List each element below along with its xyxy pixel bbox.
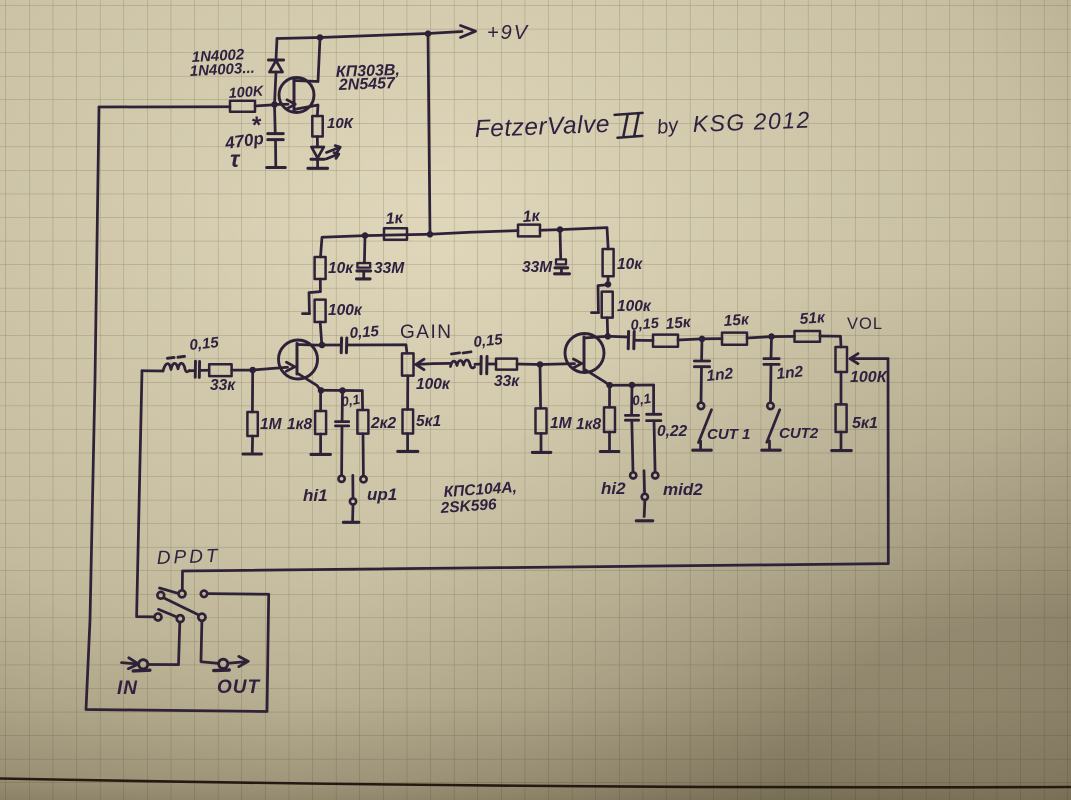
ground (CUT1) (693, 449, 711, 452)
node Q2 drain (319, 342, 326, 349)
svg-text:1N4003...: 1N4003... (189, 60, 255, 80)
svg-text:0,15: 0,15 (189, 334, 220, 354)
wire 1K right to corner, down to 10K2 (540, 228, 608, 249)
wire 33K to gate node (232, 369, 253, 372)
svg-text:10К: 10К (327, 115, 355, 132)
DPDT terminal C (201, 591, 207, 597)
DPDT terminal E (177, 615, 184, 622)
svg-text:+9V: +9V (487, 22, 529, 44)
switch hi1 terminal (339, 476, 345, 482)
wire gate lead with arrow into Q1 (275, 103, 289, 106)
arrow +9V (461, 26, 476, 38)
potentiometer GAIN 100K body (402, 353, 414, 375)
resistor 5K1 (stage1) (403, 410, 414, 434)
svg-text:1к: 1к (385, 210, 404, 228)
switch up1 terminal (360, 476, 366, 482)
ground (LED) (308, 167, 328, 170)
wire center rail drop (428, 34, 430, 235)
wire Q2 source link (297, 373, 321, 390)
capacitor 0,1 (stage1) (341, 391, 344, 421)
potentiometer VOL 100K body (836, 347, 848, 372)
wire diode to gate node (275, 72, 277, 105)
wire stage rail left (321, 234, 431, 257)
wire rail left drop to diode (276, 39, 277, 60)
capacitor 0,1 (stage2) (630, 385, 633, 414)
svg-text:FetzerValve: FetzerValve (474, 111, 610, 143)
transistor Q2 channel bar (296, 344, 299, 375)
svg-text:by: by (656, 114, 681, 139)
node gate junction Q1 (271, 101, 278, 108)
svg-text:2к2: 2к2 (370, 415, 396, 432)
capacitor 0,15 (stage2 out) (628, 332, 634, 349)
resistor 1K8 (stage2) (608, 385, 611, 407)
resistor 33K (interstage) (496, 359, 517, 370)
wire source rail stage2 (609, 384, 653, 387)
svg-text:51к: 51к (799, 309, 826, 328)
node stage rail center (427, 231, 434, 238)
wire input corner to shield squiggle (142, 369, 163, 372)
ground (CUT2) (762, 449, 780, 452)
DPDT terminal B (179, 590, 186, 597)
ground (33M#2) (555, 272, 570, 275)
ground (hi1/up1) (343, 521, 358, 524)
ground (5K1 output) (832, 449, 851, 452)
DPDT blade 1 (160, 588, 179, 593)
svg-text:0,22: 0,22 (657, 423, 688, 440)
wire left bus down and bottom box (86, 107, 269, 712)
node 1k8-2 top (606, 382, 613, 389)
svg-text:CUT2: CUT2 (779, 425, 819, 442)
svg-text:OUT: OUT (217, 677, 261, 698)
wire source rail stage1 (321, 389, 363, 392)
svg-text:33М: 33М (522, 259, 553, 276)
resistor 51K (772, 335, 795, 338)
trimmer 100K (stage2) lever (592, 285, 608, 313)
svg-text:VOL: VOL (847, 315, 883, 333)
svg-text:2N5457: 2N5457 (338, 75, 397, 94)
wire Q2 gate with arrow (253, 367, 288, 370)
capacitor 33M#1 electrolytic (363, 236, 366, 263)
switch hi2/mid2 common (643, 471, 646, 494)
DPDT terminal D (155, 614, 162, 621)
wire to node cut1 (678, 339, 702, 340)
wire Q2 drain link (297, 343, 322, 346)
wire vertical input bus to DPDT (137, 371, 155, 617)
switch CUT1 (698, 403, 704, 409)
node Q3 drain (605, 333, 612, 340)
trimmer 100K (stage2) body (602, 292, 613, 318)
node rail-drain junction (317, 34, 324, 41)
capacitor 33M#2 electrolytic (559, 230, 562, 259)
svg-text:1М: 1М (550, 415, 573, 432)
node 33M#2 tap (557, 226, 564, 233)
svg-text:100к: 100к (617, 298, 652, 315)
wire 10K to LED (316, 137, 319, 147)
IN jack tip (139, 660, 148, 669)
wire Q3 drain link (584, 336, 608, 338)
svg-text:5к1: 5к1 (852, 415, 878, 432)
DPDT terminal F (198, 614, 205, 621)
capacitor 1n2 (cut2) (770, 337, 773, 358)
ground (1M stage2) (532, 451, 550, 454)
switch hi1/up1 common (351, 475, 354, 498)
svg-text:33к: 33к (210, 377, 236, 394)
wire drain2 to output cap (608, 335, 627, 338)
node 0,1 top (339, 387, 346, 394)
OUT jack tip (219, 659, 228, 668)
transistor Q3 (stage2 JFET) circle (565, 334, 604, 373)
resistor 1K (right) (518, 225, 540, 237)
wire Q1 source down (294, 105, 318, 116)
wire 33K2 to gate2 (517, 363, 540, 366)
resistor 100K (gate bleed) (230, 101, 255, 112)
DPDT blade 3 (159, 609, 177, 617)
wire 100K left to long left bus (99, 105, 230, 108)
svg-text:15к: 15к (665, 314, 693, 333)
LED D2 (312, 147, 324, 158)
svg-text:0,1: 0,1 (340, 392, 361, 410)
svg-text:1к8: 1к8 (576, 416, 601, 433)
wire VOL bottom to 5K1 (840, 372, 843, 404)
svg-text:DPDT: DPDT (156, 546, 220, 569)
ground (5K1 stage1) (398, 450, 418, 453)
node rail-center junction (425, 30, 432, 37)
wire trimmer2 to drain node (606, 318, 609, 336)
svg-text:mid2: mid2 (663, 480, 703, 499)
svg-text:0,1: 0,1 (631, 391, 652, 409)
resistor 1M (stage2) (539, 365, 542, 409)
svg-text:IN: IN (117, 678, 138, 699)
diode D1 1N4002 (269, 59, 284, 62)
svg-text:10к: 10к (617, 256, 643, 273)
svg-text:1к: 1к (522, 208, 541, 226)
trimmer 100K (stage1) lever (303, 292, 321, 314)
wire terminal F down to OUT jack (201, 621, 217, 663)
capacitor 1n2 (cut1) (700, 339, 703, 360)
svg-text:100K: 100K (228, 84, 265, 102)
svg-text:hi2: hi2 (601, 479, 626, 498)
ground (1K8 stage1) (311, 453, 330, 456)
node below 10K2 (605, 281, 612, 288)
wire GAIN pot bottom to 5K1 (406, 376, 409, 410)
switch hi2 terminal (630, 472, 636, 478)
switch CUT2 (767, 403, 773, 409)
wire to node cut2 (747, 337, 772, 338)
wire stage rail right (430, 231, 518, 235)
node gate1 junction (249, 367, 256, 374)
resistor 10K (stage2) (603, 249, 614, 276)
ground (33M#1) (357, 277, 371, 280)
ground (1M stage1) (243, 452, 261, 455)
svg-text:1М: 1М (260, 416, 283, 433)
svg-text:KSG 2012: KSG 2012 (692, 106, 811, 137)
DPDT blade 2 (long) (164, 598, 199, 615)
svg-text:0,15: 0,15 (630, 316, 660, 334)
node cut1 tap (699, 336, 706, 343)
node 1k8 top (318, 387, 325, 394)
resistor 15K (first) (653, 335, 678, 347)
LED emission arrows (327, 146, 341, 153)
trimmer 100K (stage1) body (315, 300, 326, 322)
wire trimmer1 to drain node (320, 322, 322, 345)
svg-text:33к: 33к (494, 373, 520, 390)
capacitor 470p (273, 105, 276, 133)
wire 51K to VOL pot (820, 336, 841, 347)
resistor 33K (input1) (209, 364, 231, 376)
svg-text:0,15: 0,15 (473, 331, 504, 351)
wire drain1 to cap (322, 344, 340, 347)
shield symbol m (input1) (163, 363, 190, 372)
resistor 2K2 (361, 391, 364, 410)
capacitor 0,15 (input1) (195, 361, 199, 377)
resistor 1K (left) (384, 228, 407, 240)
wire terminal E down to IN jack (149, 622, 180, 664)
transistor Q1 channel bar (293, 80, 296, 111)
OUT jack sleeve bar (214, 668, 229, 672)
node gate2 junction (537, 361, 544, 368)
wire Q1 drain to rail (294, 38, 320, 82)
ground (1K8 stage2) (600, 450, 618, 453)
transistor Q2 (stage1 JFET) circle (279, 340, 318, 379)
transistor Q3 channel bar (583, 337, 586, 370)
transistor Q1 KP303V circle (279, 78, 314, 113)
capacitor 0,15 (interstage) (481, 357, 487, 374)
svg-text:10к: 10к (328, 260, 354, 277)
svg-text:100к: 100к (328, 302, 363, 319)
svg-text:15к: 15к (723, 311, 750, 330)
resistor 10K (LED) (312, 116, 322, 137)
svg-text:up1: up1 (367, 485, 397, 504)
wire gate2 with arrow (540, 362, 575, 366)
OUT jack arrow (228, 662, 247, 664)
resistor 5K1 (output) (836, 404, 847, 432)
capacitor 0,15 (stage1 out) (341, 338, 347, 353)
svg-text:CUT 1: CUT 1 (707, 426, 750, 443)
svg-text:5к1: 5к1 (416, 413, 441, 430)
resistor 1M (stage1) (251, 370, 254, 412)
svg-text:1к8: 1к8 (287, 416, 312, 433)
GAIN wiper arrow (419, 362, 434, 365)
IN jack sleeve bar (133, 669, 150, 673)
IN jack arrow (122, 663, 136, 664)
svg-text:0,15: 0,15 (349, 323, 380, 342)
DPDT terminal A (157, 592, 164, 599)
wire +9V rail (277, 32, 462, 39)
wire 10K1 to trimmer (319, 279, 322, 291)
VOL wiper arrow and output run (854, 357, 889, 360)
node 0,1-2 top (629, 382, 636, 389)
wire Q3 source link (584, 369, 609, 385)
svg-text:hi1: hi1 (303, 486, 328, 505)
svg-text:1n2: 1n2 (706, 365, 735, 385)
ground (470p) (267, 166, 285, 169)
svg-text:100к: 100к (416, 376, 451, 393)
wire 100K to gate node (255, 105, 275, 106)
svg-text:τ: τ (230, 146, 241, 172)
wire cap to GAIN pot (347, 345, 407, 354)
resistor 1K8 (stage1) (319, 391, 322, 412)
page bottom edge line (0, 779, 1071, 788)
svg-text:GAIN: GAIN (400, 322, 452, 343)
svg-text:1n2: 1n2 (776, 363, 805, 383)
node cut2 tap (768, 333, 775, 340)
shield symbol m (interstage) (451, 360, 475, 368)
capacitor 0,22 (652, 385, 655, 413)
svg-text:33М: 33М (374, 260, 405, 277)
wire GAIN wiper to shield squiggle 2 (434, 362, 451, 365)
resistor 10K (stage1) (315, 257, 326, 279)
svg-text:100К: 100К (850, 369, 888, 386)
resistor 15K (second) (702, 337, 722, 340)
ground (hi2/mid2) (636, 519, 652, 522)
switch mid2 terminal (652, 472, 658, 478)
node 33M#1 tap (362, 232, 369, 239)
